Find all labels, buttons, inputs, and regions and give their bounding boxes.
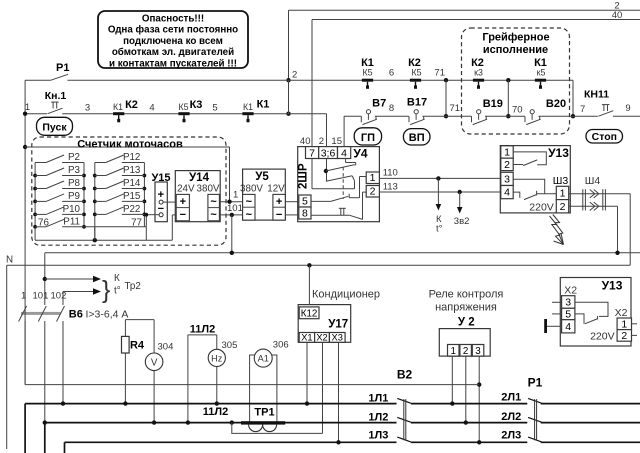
wire 1 / 101 between У14 and У5	[219, 201, 242, 203]
pin 3;6	[319, 147, 338, 159]
svg-text:ТР1: ТР1	[254, 407, 274, 419]
svg-text:А1: А1	[258, 354, 269, 364]
switch B2 linkage	[403, 399, 405, 440]
svg-text:Р1: Р1	[56, 62, 69, 74]
svg-text:12V: 12V	[267, 184, 285, 195]
svg-text:X2: X2	[564, 285, 577, 297]
node 70 vertical	[506, 78, 510, 82]
svg-text:2: 2	[370, 186, 376, 198]
internal contact	[575, 302, 608, 316]
svg-text:X2: X2	[615, 307, 628, 319]
svg-text:}: }	[102, 276, 110, 304]
svg-text:5: 5	[565, 309, 571, 321]
svg-text:У14: У14	[189, 172, 210, 184]
svg-text:исполнение: исполнение	[483, 44, 548, 56]
left vertical supply wire (wire 1 upper)	[24, 80, 26, 305]
Ш3 pin 1	[556, 186, 568, 199]
wire P22 row to У15 minus	[144, 214, 159, 216]
wall/chassis symbol	[544, 319, 547, 333]
svg-text:40: 40	[300, 136, 311, 147]
svg-text:I>3-6,4 А: I>3-6,4 А	[86, 309, 129, 321]
Ш3 pin 2	[556, 200, 568, 213]
relay contact group P12..P22	[94, 163, 96, 241]
start button label	[37, 117, 73, 135]
svg-text:P22: P22	[123, 204, 140, 215]
svg-text:5: 5	[212, 103, 217, 114]
svg-text:X2: X2	[316, 333, 327, 343]
svg-text:76: 76	[38, 217, 49, 228]
svg-text:обмоткам эл. двигателей: обмоткам эл. двигателей	[112, 47, 234, 58]
resistor R4 + voltmeter bracket	[125, 319, 154, 321]
contact bar	[535, 79, 546, 82]
svg-text:Одна фаза сети постоянно: Одна фаза сети постоянно	[108, 25, 238, 36]
svg-text:К1: К1	[243, 102, 253, 112]
У13 internal contact 2	[513, 179, 545, 194]
svg-text:1: 1	[21, 291, 26, 302]
svg-text:4: 4	[149, 103, 154, 114]
limit switch label ГП	[354, 128, 381, 145]
contact bar	[410, 79, 421, 82]
bus 1Л1/2Л1	[25, 403, 396, 405]
svg-text:Грейферное: Грейферное	[482, 32, 549, 44]
svg-text:У13: У13	[602, 279, 623, 293]
svg-text:1: 1	[504, 147, 510, 159]
svg-text:1: 1	[370, 172, 376, 184]
svg-text:11Л2: 11Л2	[190, 324, 215, 336]
svg-text:306: 306	[273, 340, 289, 351]
svg-text:9: 9	[625, 103, 630, 114]
svg-text:Р1: Р1	[528, 376, 543, 390]
svg-text:У 2: У 2	[458, 317, 475, 329]
svg-text:P14: P14	[123, 178, 141, 189]
svg-text:В6: В6	[69, 309, 83, 321]
svg-text:Ш3: Ш3	[553, 175, 569, 187]
stubs left	[552, 301, 562, 303]
svg-text:2: 2	[463, 346, 468, 357]
svg-text:1: 1	[560, 188, 566, 200]
svg-text:К12: К12	[301, 308, 318, 319]
row-1 right: contact K1/K5	[289, 79, 574, 81]
limit switch label ВП	[403, 129, 430, 145]
svg-text:У13: У13	[548, 146, 569, 160]
svg-text:+: +	[180, 196, 186, 208]
svg-text:напряжения: напряжения	[435, 302, 497, 314]
wire 101 left vertical	[44, 253, 46, 305]
svg-text:~: ~	[246, 209, 253, 221]
wire 2 into U4 pin 3;6	[289, 113, 327, 115]
svg-text:71: 71	[434, 68, 445, 79]
pin 7	[306, 147, 319, 159]
svg-text:В20: В20	[546, 98, 566, 110]
svg-text:220V: 220V	[529, 202, 554, 214]
node 71 vertical	[444, 78, 448, 82]
svg-text:1Л1: 1Л1	[368, 392, 388, 404]
svg-text:2: 2	[319, 136, 324, 147]
svg-text:24V: 24V	[177, 184, 195, 195]
svg-text:R4: R4	[130, 340, 145, 352]
connector block У4 (2ШР)	[298, 147, 380, 222]
svg-text:7: 7	[580, 104, 585, 115]
svg-text:2Л1: 2Л1	[501, 392, 521, 404]
svg-text:2: 2	[560, 201, 566, 213]
wire 1 feed to U14/U5	[25, 146, 229, 148]
svg-text:8: 8	[302, 208, 308, 220]
svg-text:P3: P3	[68, 165, 81, 176]
bus A (wire 101 top)	[45, 252, 640, 254]
wire 2 (top)	[289, 9, 640, 11]
svg-text:У4: У4	[353, 147, 367, 161]
pole outputs	[24, 321, 26, 385]
svg-text:X3: X3	[332, 333, 343, 343]
frequency meter Hz	[208, 349, 225, 366]
bus 1Л2/2Л2	[45, 422, 397, 424]
svg-text:Пуск: Пуск	[42, 122, 67, 134]
dashed box: greifer version	[462, 28, 570, 134]
lightning arrow (hazard)	[550, 216, 564, 245]
svg-text:Hz: Hz	[211, 353, 223, 363]
switch B20	[508, 115, 525, 117]
arrow 3в2	[459, 192, 461, 209]
svg-text:Опасность!!!: Опасность!!!	[142, 14, 204, 25]
svg-text:К5: К5	[178, 102, 188, 112]
svg-text:Кн.1: Кн.1	[45, 90, 67, 102]
wire 110	[379, 177, 500, 179]
svg-text:к3: к3	[474, 68, 483, 78]
svg-text:3: 3	[85, 103, 90, 114]
svg-text:У5: У5	[255, 171, 269, 183]
svg-text:2: 2	[292, 70, 297, 81]
wire corner to node 7	[572, 80, 574, 116]
voltmeter V	[153, 320, 155, 423]
svg-text:2: 2	[621, 330, 627, 342]
svg-text:2: 2	[504, 159, 510, 171]
svg-text:102: 102	[51, 291, 67, 302]
counter bottom bus	[35, 239, 172, 241]
svg-text:В2: В2	[397, 368, 413, 382]
contact bar	[113, 112, 124, 115]
svg-text:113: 113	[383, 182, 398, 193]
warning note box	[98, 11, 248, 68]
svg-text:8: 8	[389, 103, 394, 114]
svg-text:Реле контроля: Реле контроля	[429, 289, 504, 301]
CT secondary loop	[232, 423, 323, 434]
svg-text:P13: P13	[123, 165, 141, 176]
svg-text:К5: К5	[411, 68, 421, 78]
transformer У14	[175, 171, 220, 222]
contact bar	[473, 79, 484, 82]
svg-text:Счетчик моточасов: Счетчик моточасов	[77, 139, 183, 151]
svg-text:+: +	[158, 189, 164, 201]
svg-text:4: 4	[565, 321, 571, 333]
row 2 right: wire 15 corner	[343, 116, 345, 146]
pins X1 X2 X3	[299, 333, 314, 343]
svg-text:P2: P2	[68, 152, 80, 163]
dashed box: hour counter	[32, 137, 226, 245]
У13 internal contact 1	[513, 152, 546, 165]
svg-text:КН11: КН11	[584, 89, 609, 101]
svg-text:101: 101	[33, 291, 49, 302]
svg-text:11Л2: 11Л2	[203, 406, 228, 418]
svg-text:В7: В7	[372, 98, 386, 110]
svg-text:+: +	[276, 196, 282, 208]
switch B7	[344, 115, 361, 117]
arrow K t°	[437, 178, 439, 205]
bus 1Л3/2Л3	[65, 441, 397, 443]
svg-text:К2: К2	[125, 99, 138, 111]
wires У5 to 2ШР pins 5,8	[285, 201, 299, 203]
svg-text:1: 1	[621, 318, 627, 330]
svg-text:15: 15	[331, 136, 342, 147]
X1 wire	[306, 342, 308, 403]
arrow to t Tp2 (wire 102)	[63, 291, 95, 293]
svg-text:2Л2: 2Л2	[501, 411, 521, 423]
svg-text:~: ~	[246, 196, 253, 208]
svg-text:t°: t°	[114, 286, 121, 297]
switch B19	[446, 115, 472, 117]
svg-text:N: N	[6, 255, 13, 266]
svg-text:1: 1	[25, 102, 30, 113]
svg-text:−: −	[276, 209, 282, 221]
svg-text:3;6: 3;6	[321, 148, 336, 160]
svg-text:5: 5	[302, 196, 308, 208]
ammeter leads	[250, 355, 255, 422]
svg-text:X1: X1	[301, 333, 312, 343]
stop button label	[586, 130, 623, 144]
svg-text:4: 4	[504, 187, 510, 199]
svg-text:70: 70	[512, 105, 523, 116]
У4 pins 1,2	[366, 172, 379, 184]
svg-text:ВП: ВП	[409, 132, 425, 144]
svg-text:101: 101	[227, 203, 243, 214]
svg-text:Кондиционер: Кондиционер	[312, 289, 380, 301]
svg-text:Ш4: Ш4	[585, 175, 601, 187]
К12 pin box	[299, 307, 319, 319]
relay block У13 (upper)	[500, 146, 570, 213]
У4 internal contacts	[311, 159, 313, 189]
svg-text:P10: P10	[63, 204, 81, 215]
svg-text:К5: К5	[362, 68, 372, 78]
svg-text:В17: В17	[407, 97, 427, 109]
svg-text:2Л3: 2Л3	[501, 430, 521, 442]
svg-text:1Л3: 1Л3	[368, 430, 388, 442]
svg-text:7: 7	[309, 148, 315, 160]
svg-text:380V: 380V	[240, 184, 263, 195]
svg-text:71: 71	[450, 103, 461, 114]
svg-text:40: 40	[612, 10, 623, 21]
transformer У5	[243, 169, 286, 220]
У4 lower internals	[360, 176, 367, 178]
contact bar	[242, 112, 253, 115]
svg-text:3в2: 3в2	[454, 216, 470, 227]
svg-text:1: 1	[233, 190, 238, 201]
svg-text:2ШР: 2ШР	[298, 163, 310, 189]
svg-text:1Л2: 1Л2	[368, 411, 388, 423]
svg-text:к5: к5	[537, 68, 546, 78]
node 2 junction	[286, 78, 290, 82]
svg-text:К1: К1	[113, 102, 123, 112]
svg-text:−: −	[180, 209, 186, 221]
arrow to K Tp2	[45, 278, 95, 280]
svg-text:304: 304	[158, 342, 174, 353]
svg-text:220V: 220V	[590, 331, 615, 343]
svg-text:4: 4	[341, 148, 347, 160]
У2 pin wires	[451, 356, 453, 404]
svg-text:К1: К1	[257, 99, 270, 111]
wire У15 plus to У14	[163, 201, 176, 203]
svg-text:110: 110	[383, 168, 398, 179]
svg-text:В19: В19	[483, 98, 503, 110]
relay contact group P2..P11	[34, 163, 36, 241]
wire 40 (top)	[312, 19, 640, 21]
svg-text:К3: К3	[190, 99, 203, 111]
svg-text:3: 3	[475, 346, 481, 357]
push button КН11 (Стоп)	[573, 115, 598, 117]
relay block У13 (lower)	[560, 278, 631, 347]
svg-text:подключена ко всем: подключена ко всем	[123, 36, 223, 47]
svg-text:ГП: ГП	[361, 132, 375, 144]
bus junction dots	[61, 401, 65, 405]
svg-text:3: 3	[504, 174, 510, 186]
X3 wire	[338, 342, 340, 442]
svg-text:У17: У17	[328, 319, 348, 331]
svg-text:Стоп: Стоп	[592, 131, 617, 143]
svg-text:P11: P11	[63, 216, 80, 227]
svg-text:6: 6	[389, 68, 394, 79]
svg-text:P12: P12	[123, 152, 140, 163]
svg-text:305: 305	[222, 340, 238, 351]
svg-text:1: 1	[450, 346, 455, 357]
X2 wire	[322, 342, 324, 433]
svg-text:~: ~	[210, 196, 217, 208]
contact bar	[178, 112, 189, 115]
svg-text:3: 3	[565, 297, 571, 309]
svg-text:P9: P9	[68, 191, 80, 202]
switch P1 linkage	[534, 399, 536, 440]
pin 4	[338, 147, 351, 159]
contact bar	[362, 79, 373, 82]
svg-text:и контактам пускателей !!!: и контактам пускателей !!!	[109, 58, 237, 69]
svg-text:t°: t°	[436, 224, 443, 235]
svg-text:P15: P15	[123, 191, 141, 202]
wire-1 horizontal bus (gray)	[25, 384, 479, 386]
svg-text:К: К	[114, 273, 120, 284]
svg-text:P8: P8	[68, 178, 81, 189]
contact K2/K1	[112, 113, 289, 115]
У4 pins 5,8	[299, 195, 311, 207]
P11 row long wire	[84, 226, 146, 228]
svg-text:380V: 380V	[197, 184, 220, 195]
wire 113	[379, 191, 500, 193]
svg-text:V: V	[151, 357, 158, 368]
svg-text:Тр2: Тр2	[125, 281, 141, 292]
svg-text:~: ~	[210, 209, 217, 221]
